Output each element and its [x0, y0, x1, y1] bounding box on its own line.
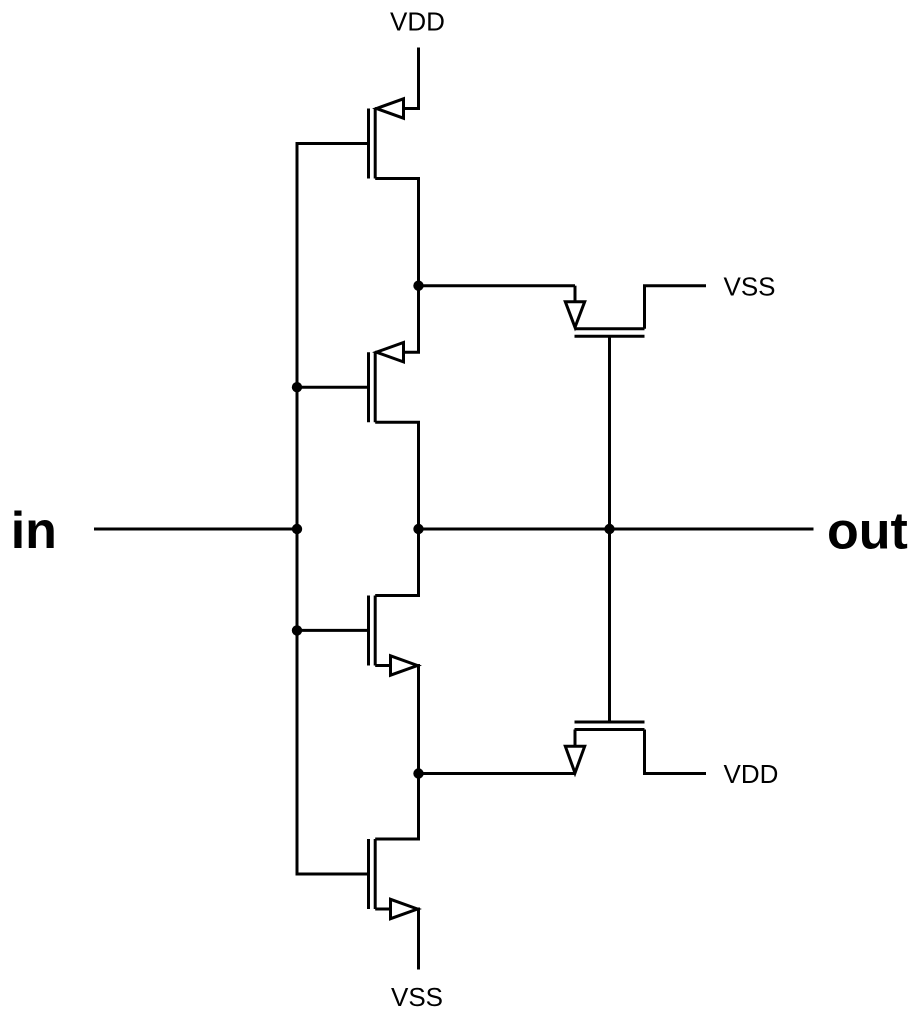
transistor M4 (NMOS) gate bar: [367, 839, 370, 909]
svg-text:VDD: VDD: [724, 759, 779, 789]
wire: M1 drain down to M2 source: [375, 179, 418, 353]
junction dot at node B (M3/M4 junction to Q6): [413, 768, 423, 778]
junction dot at M3 gate on trunk: [292, 625, 302, 635]
transistor Q6 gate bar: [575, 721, 645, 724]
junction dot at M2 gate on trunk: [292, 382, 302, 392]
junction dot at node A (M1/M2 junction to Q5): [413, 281, 423, 291]
svg-text:in: in: [11, 502, 57, 560]
transistor M3 (NMOS) gate bar: [367, 596, 370, 666]
svg-text:out: out: [827, 502, 908, 560]
transistor Q5 channel bar: [575, 327, 645, 330]
wire: Q5 drain up and right to VSS: [645, 286, 707, 329]
transistor M2 channel bar: [374, 352, 377, 422]
arrow of Q6 (arrow pointing away from channel): [565, 746, 584, 773]
wire: Q5 gate stub down to out node: [608, 336, 611, 529]
junction dot at Q5/Q6 gates on out wire: [604, 524, 614, 534]
wire: out lead: [419, 528, 814, 531]
wire: gate bus trunk with top lead to M1 and bottom lead to M4: [297, 144, 368, 875]
transistor M1 (PMOS) gate bar: [367, 109, 370, 179]
wire: M4 source down to VSS: [375, 909, 418, 970]
wire: M3 source down to M4 drain: [375, 666, 418, 840]
wire: Q6 drain down and right to VDD: [645, 730, 707, 774]
svg-text:VSS: VSS: [724, 271, 776, 301]
junction dot at out node on drain column: [413, 524, 423, 534]
svg-text:VDD: VDD: [390, 6, 445, 36]
wire: M2 drain down through out node to M3 drain: [375, 422, 418, 595]
arrow of Q5 (arrow pointing into channel): [565, 302, 584, 328]
transistor Q6 source stub: [574, 730, 577, 747]
transistor Q5 gate bar: [575, 335, 645, 338]
arrow of M4 (NMOS source arrow): [391, 899, 418, 918]
wire: Q6 gate stub from out node down: [608, 529, 611, 722]
transistor M1 channel bar: [374, 109, 377, 179]
svg-text:VSS: VSS: [391, 982, 443, 1012]
transistor M3 channel bar: [374, 596, 377, 666]
junction dot at input on trunk: [292, 524, 302, 534]
arrow of M2 (PMOS source arrow): [377, 343, 404, 362]
arrow of M1 (PMOS source arrow): [377, 99, 404, 118]
transistor Q5 (feedback FET to VSS): source stub: [574, 286, 577, 302]
transistor Q6 channel bar: [575, 728, 645, 731]
wire: VDD stub down to M1 source, with corner: [375, 48, 418, 109]
transistor M4 channel bar: [374, 839, 377, 909]
wire: node between M3 and M4 out to Q6 arrow: [419, 772, 576, 775]
wire: input lead: [94, 528, 297, 531]
wire: gate lead of M2: [297, 386, 368, 389]
wire: gate lead of M3: [297, 629, 368, 632]
wire: node between M1 and M2 out to Q5: [419, 284, 576, 287]
transistor M2 (PMOS) gate bar: [367, 352, 370, 422]
arrow of M3 (NMOS source arrow): [391, 656, 418, 675]
